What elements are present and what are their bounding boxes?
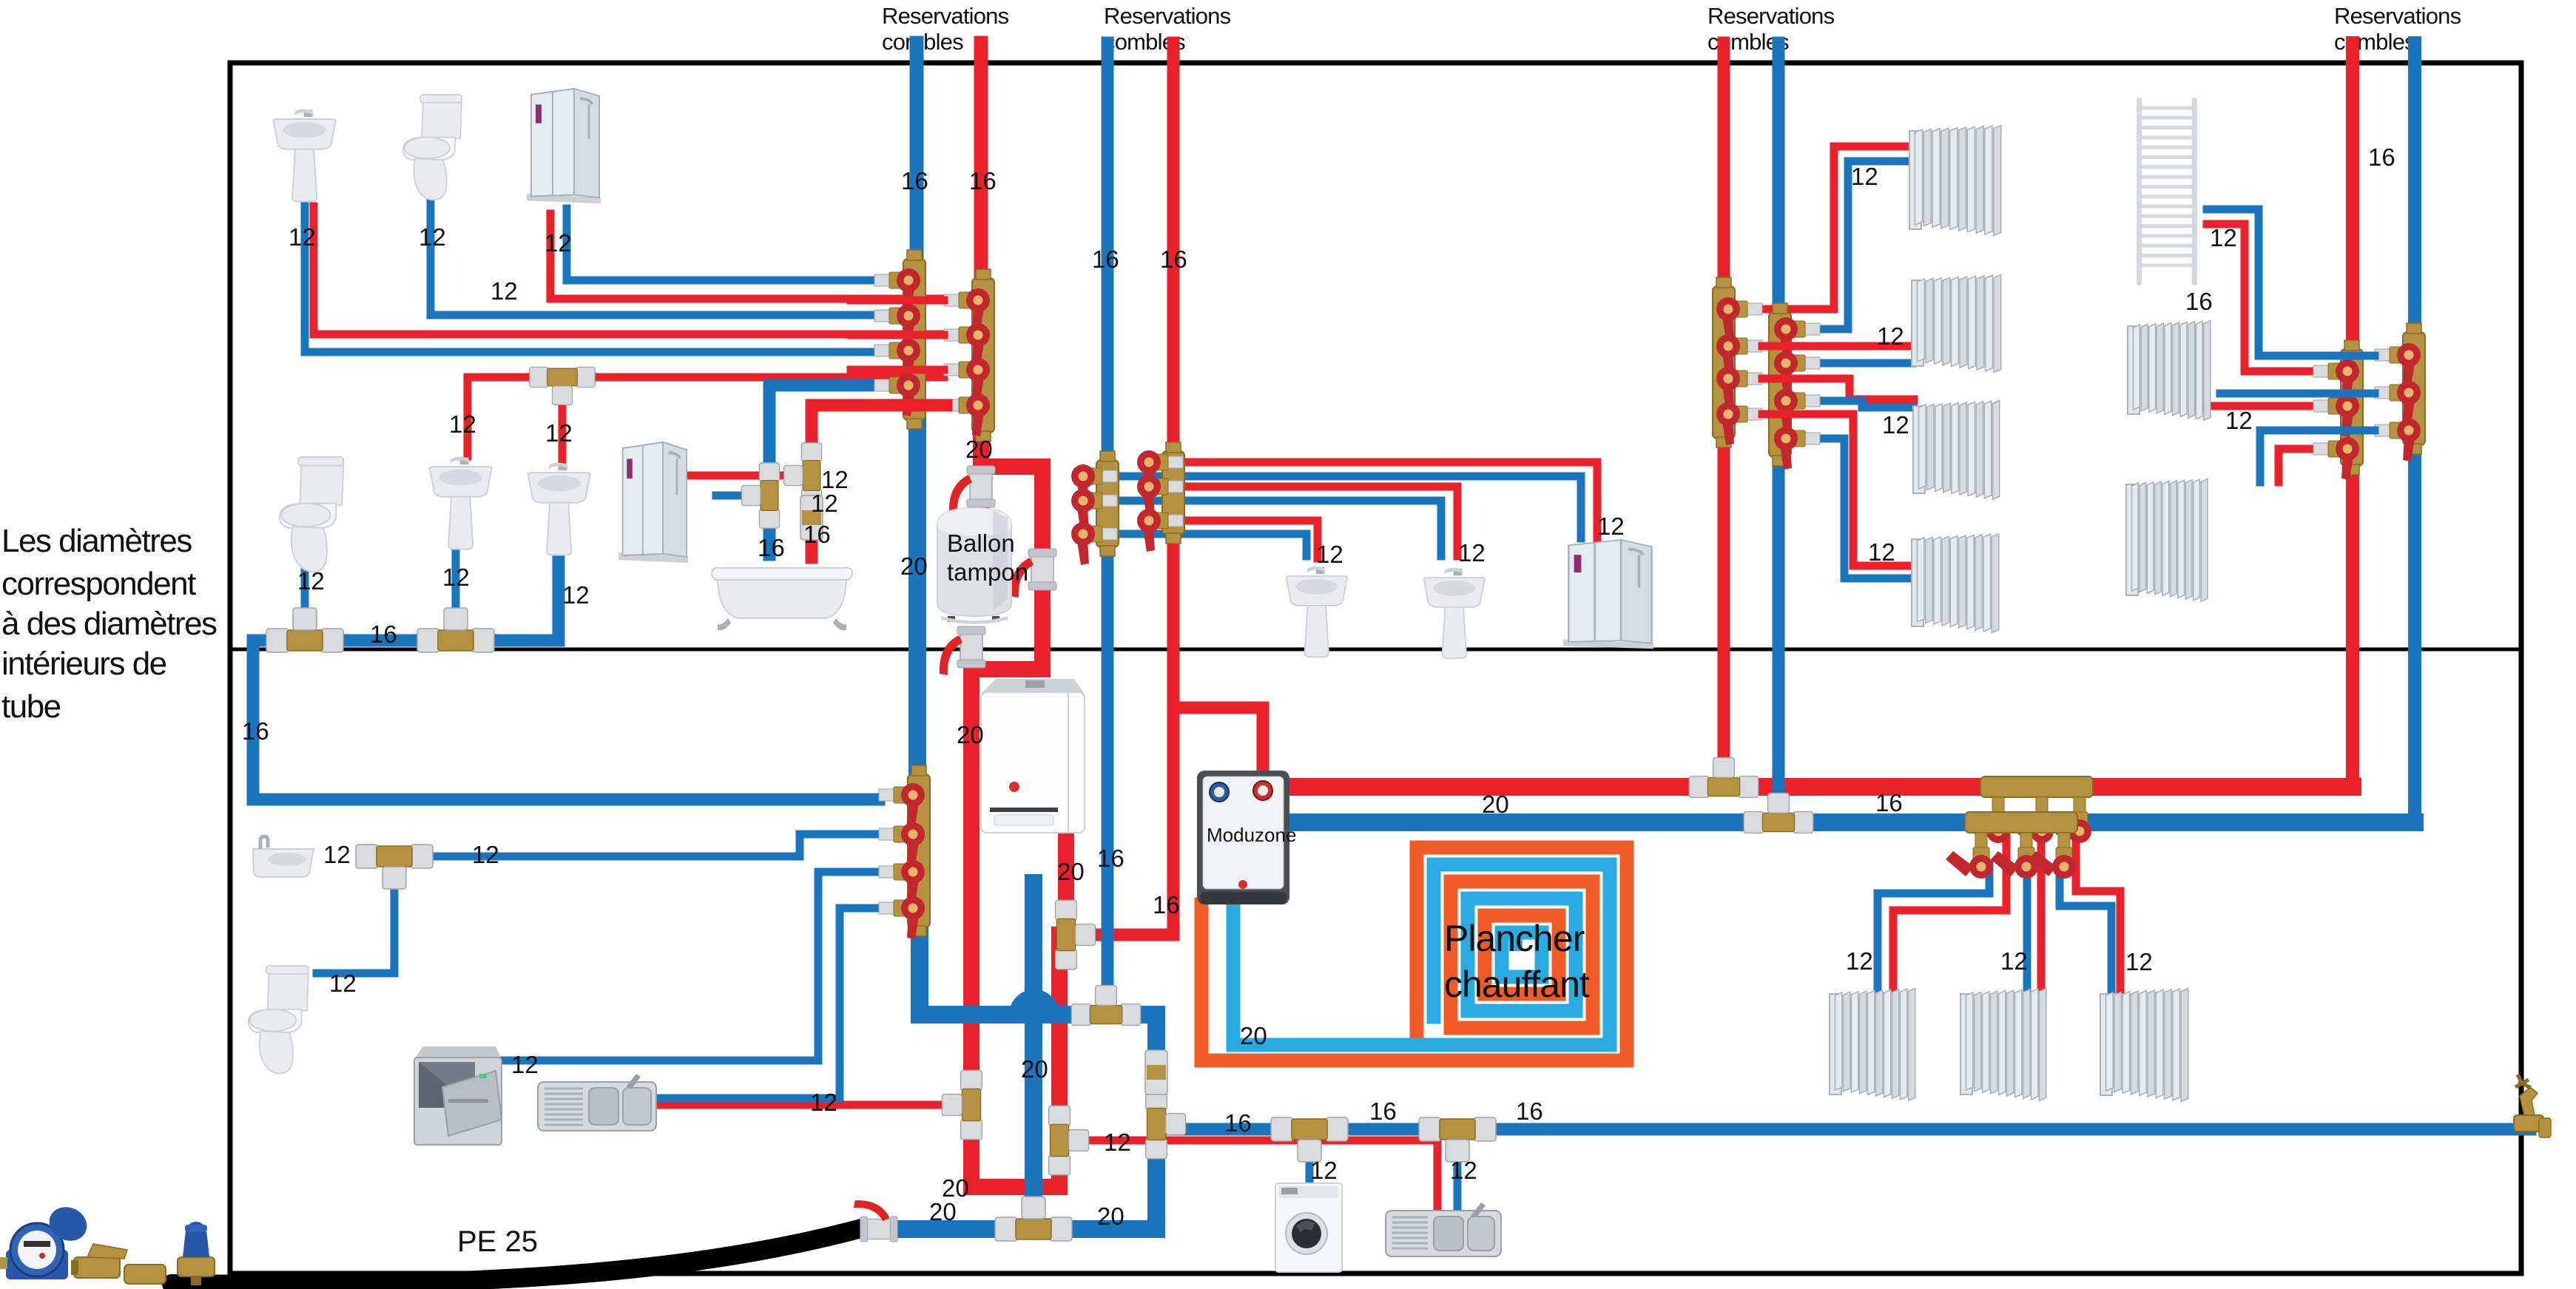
wire cold 12 to radiator R1 <box>1820 161 1910 329</box>
check valve <box>124 1265 166 1284</box>
coupler bathtub hot <box>800 495 823 540</box>
svg-text:12: 12 <box>289 223 316 251</box>
wire hot branch to sink 4 <box>559 377 567 464</box>
heating flow manifold right <box>2313 340 2363 480</box>
svg-text:12: 12 <box>1450 1157 1477 1184</box>
wire hot manifold down to ballon tampon <box>973 429 989 510</box>
svg-text:16: 16 <box>370 620 397 648</box>
svg-text:12: 12 <box>2225 407 2253 434</box>
wire cold 12 WC branch <box>317 865 394 973</box>
cold water manifold ground floor <box>879 765 930 939</box>
bathtub <box>712 568 852 631</box>
svg-text:16: 16 <box>803 521 831 548</box>
PE 25 supply pipe <box>172 1228 864 1285</box>
radiator R2 <box>1912 275 2001 373</box>
wire hot 16 to Moduzone <box>1173 708 1263 775</box>
wire cold 12 to towel radiator <box>2207 209 2375 356</box>
ground heating flow manifold <box>1963 777 2093 843</box>
svg-text:16: 16 <box>1369 1097 1397 1125</box>
svg-text:Moduzone: Moduzone <box>1207 824 1296 846</box>
svg-text:20: 20 <box>900 552 928 580</box>
wire cold riser 3 (Reservations combles) to ground floor <box>1773 43 1785 822</box>
label Reservations combles 1 <box>882 3 1009 55</box>
main stop valve <box>71 1244 127 1278</box>
wire cold 16 to bathroom 2 <box>769 385 877 555</box>
ball valve ballon top <box>949 466 995 515</box>
svg-text:Reservations: Reservations <box>1707 3 1835 29</box>
svg-text:chauffant: chauffant <box>1444 964 1590 1005</box>
wire cold 12 to sink 5 <box>1117 534 1306 556</box>
toilet 1 <box>403 95 462 200</box>
wire cold 12 to radiator B <box>2260 430 2375 482</box>
wire hot to shower 1 <box>550 214 944 299</box>
wire hot 12 to radiator R2 <box>1762 342 1912 351</box>
water meter <box>0 1201 92 1279</box>
radiator A <box>2128 321 2211 421</box>
wire hot 20 boiler drop <box>1058 833 1074 923</box>
wire cold 12 to ground radiator 2 <box>2023 868 2032 989</box>
washing machine <box>1275 1183 1342 1272</box>
radiator B <box>2126 479 2208 602</box>
wire cold 20 main riser to ground manifold <box>908 423 926 774</box>
wire cold rows over right flow manifold <box>2323 356 2375 430</box>
wire hot 12 to shower 3 <box>1183 462 1597 538</box>
towel radiator <box>2137 98 2197 285</box>
tee fitting shower 2 cold <box>742 463 780 528</box>
svg-text:12: 12 <box>1851 163 1878 190</box>
wire hot riser 1 (Reservations combles) to upstairs hot manifold <box>974 43 988 278</box>
svg-text:12: 12 <box>490 277 518 305</box>
svg-text:12: 12 <box>297 567 325 595</box>
svg-text:16: 16 <box>1092 246 1119 273</box>
wire hot 12 to radiator R1 <box>1762 146 1910 309</box>
wire hot riser 2 (Reservations combles) <box>1167 43 1180 935</box>
svg-text:12: 12 <box>419 223 446 251</box>
tee fitting shower 2 hot <box>784 443 822 508</box>
wire hot 12 to radiator R3 <box>1762 379 1914 399</box>
svg-text:12: 12 <box>545 419 573 447</box>
wire cold 12 to sink 6 <box>1117 501 1441 556</box>
wire hot riser 4 (Reservations combles) <box>2346 43 2359 787</box>
svg-text:tube: tube <box>1 689 61 725</box>
tee fitting cold riser split <box>1071 985 1141 1025</box>
ball valve floor crossing <box>940 626 985 675</box>
svg-text:12: 12 <box>1877 322 1904 350</box>
cold mini manifold mid bathroom <box>1071 451 1119 565</box>
wire cold to toilet 1 <box>431 195 877 315</box>
tee fitting small sink <box>356 845 433 889</box>
coupler union cold drop <box>1145 1050 1167 1095</box>
svg-text:12: 12 <box>2210 224 2237 251</box>
svg-text:12: 12 <box>442 564 470 591</box>
wire cold 12 to small sink and WC <box>364 834 879 856</box>
svg-text:12: 12 <box>1316 541 1343 568</box>
wire cold 20 bottom main run <box>895 1220 1156 1238</box>
wire cold 12 to radiator R4 <box>1820 439 1912 578</box>
tee fitting sink 4 hot <box>530 367 595 405</box>
svg-text:16: 16 <box>2368 143 2395 171</box>
toilet 2 <box>280 457 343 572</box>
wire hot 12 to sink 5 <box>1183 521 1318 558</box>
tee fitting kitchen hot <box>942 1070 982 1140</box>
wire cold 12 to shower 3 <box>1117 476 1581 538</box>
wire cold riser 2 (Reservations combles) to ground tee <box>1102 43 1114 1015</box>
svg-text:12: 12 <box>1597 512 1625 540</box>
plancher chauffant floor heating loop <box>1201 848 1627 1060</box>
svg-text:20: 20 <box>929 1198 957 1225</box>
svg-text:12: 12 <box>562 581 590 609</box>
svg-text:12: 12 <box>1104 1129 1131 1156</box>
boiler Saunier Duval <box>981 679 1085 833</box>
wire cold 12 to radiator R2 <box>1820 359 1912 368</box>
svg-text:20: 20 <box>957 721 984 748</box>
ground radiator 2 <box>1960 989 2046 1101</box>
tee fitting toilet 2 <box>266 608 343 652</box>
svg-text:12: 12 <box>449 410 476 438</box>
shower 3 <box>1563 540 1653 649</box>
kitchen sink <box>538 1074 656 1131</box>
wire cold 12 sink 3 drop <box>452 551 460 625</box>
wire cold 16 ground long run to manifold <box>253 794 879 806</box>
svg-text:16: 16 <box>1516 1097 1543 1125</box>
svg-text:16: 16 <box>1160 246 1187 273</box>
label Reservations combles 3 <box>1707 3 1835 55</box>
pipe size labels <box>242 143 2395 1230</box>
svg-text:20: 20 <box>965 436 993 463</box>
toilet B <box>249 966 308 1073</box>
wire cold 20 Moduzone to radiator manifold <box>1289 813 2415 831</box>
tee fitting cold 16 branch <box>1146 1089 1186 1159</box>
svg-text:Reservations: Reservations <box>2334 3 2461 29</box>
wire hot 20 Moduzone to radiator manifold <box>1289 778 2353 796</box>
svg-text:Ballon: Ballon <box>947 530 1015 557</box>
svg-text:16: 16 <box>2185 288 2213 315</box>
svg-text:à des diamètres: à des diamètres <box>1 606 217 642</box>
small hand basin <box>253 836 314 877</box>
heating flow manifold first floor <box>1713 277 1762 447</box>
floor divider line <box>232 648 2519 652</box>
radiator R4 <box>1912 534 1999 633</box>
svg-text:12: 12 <box>2125 948 2153 975</box>
wire cold 20 tee to down elbow <box>1113 1015 1156 1229</box>
wire cold 20 boiler feed riser <box>1025 883 1042 1229</box>
sink 5 <box>1286 566 1347 657</box>
Moduzone distribution unit <box>1197 771 1296 904</box>
wire hot 20 manifold to ballon valve <box>971 467 1059 1187</box>
svg-text:16: 16 <box>758 534 785 561</box>
wire hot 12 to ground radiator 2 <box>2037 836 2046 989</box>
tee fitting boiler hot <box>1056 900 1096 970</box>
svg-text:correspondent: correspondent <box>1 566 196 602</box>
wire hot 12 to ground radiator 1 <box>1893 836 2006 989</box>
wire cold 20 bridge over boiler riser <box>1018 998 1051 1015</box>
wire hot 12 to shower 2 <box>688 472 800 480</box>
caption text <box>1 523 217 725</box>
svg-text:16: 16 <box>969 167 997 194</box>
svg-text:12: 12 <box>2000 947 2028 975</box>
wire hot 12 to radiator R4 <box>1762 414 1912 566</box>
wire cold 16 bathroom 2 floor run <box>253 551 559 799</box>
svg-text:12: 12 <box>1868 538 1895 566</box>
shower 2 <box>618 442 688 563</box>
svg-text:PE 25: PE 25 <box>457 1225 538 1258</box>
label Reservations combles 4 <box>2334 3 2461 55</box>
svg-text:20: 20 <box>1240 1022 1267 1049</box>
svg-text:12: 12 <box>329 970 357 997</box>
wire hot 12 to ground radiator 3 <box>2076 836 2120 989</box>
heating return manifold first floor <box>1769 303 1820 470</box>
svg-text:12: 12 <box>1458 539 1486 566</box>
wire cold to sink 1 <box>305 203 877 352</box>
svg-text:12: 12 <box>1882 411 1909 439</box>
wire cold riser 4 (Reservations combles) <box>2408 43 2421 822</box>
wire cold 12 to ground radiator 1 <box>1878 864 1989 989</box>
svg-text:tampon: tampon <box>947 558 1028 586</box>
svg-text:16: 16 <box>1224 1109 1252 1137</box>
hot mini manifold mid bathroom <box>1137 442 1184 552</box>
svg-text:12: 12 <box>544 229 572 257</box>
outside tap <box>2514 1075 2551 1137</box>
tee fitting kitchen sink 2 <box>1419 1117 1496 1162</box>
svg-text:12: 12 <box>811 490 838 517</box>
wire hot to sink 1 <box>314 206 944 334</box>
svg-text:20: 20 <box>1097 1202 1125 1230</box>
wire cold 12 to kitchen sink <box>659 908 879 1098</box>
kitchen sink 2 <box>1386 1202 1501 1256</box>
svg-text:16: 16 <box>1097 845 1125 872</box>
wire cold 12 toilet 2 drop <box>301 566 309 625</box>
sink 3 <box>429 456 491 549</box>
wire cold 16 bottom long run to outside tap <box>1167 1123 2530 1136</box>
ball valve ballon right <box>1011 549 1056 598</box>
ball valve PE main <box>854 1200 897 1242</box>
wire cold 12 to ground radiator 3 <box>2060 864 2111 989</box>
cold water manifold upstairs <box>874 250 925 429</box>
wire cold 20 bridge to tee <box>1051 1006 1113 1024</box>
wire cold 20 ground manifold feed <box>920 926 1018 1015</box>
tee fitting sink2 hot <box>1049 1106 1089 1175</box>
tee fitting bottom main <box>995 1197 1072 1241</box>
sink 6 <box>1423 568 1485 659</box>
wire heating rows over return manifold <box>1762 329 1820 414</box>
tee fitting sink 3 <box>417 608 494 652</box>
wire hot 12 to kitchen sink <box>656 1101 962 1109</box>
svg-text:Reservations: Reservations <box>1104 3 1231 29</box>
svg-text:16: 16 <box>1153 891 1180 918</box>
wire hot rows over cold manifold <box>851 300 946 405</box>
wire hot 12 to kitchen sink 2 <box>1074 1140 1437 1211</box>
wire hot to sinks 3-4 <box>468 377 944 456</box>
svg-text:Les diamètres: Les diamètres <box>1 523 192 559</box>
label PE 25 <box>457 1225 538 1258</box>
dishwasher <box>414 1046 502 1145</box>
svg-text:16: 16 <box>901 167 928 194</box>
wire hot 12 to radiator B <box>2279 449 2313 482</box>
pressure reducer <box>178 1222 215 1285</box>
ground radiator 3 <box>2100 989 2188 1102</box>
wire cold to shower 1 <box>567 209 877 280</box>
radiator R1 <box>1909 126 2001 236</box>
ground heating return manifold <box>1946 812 2077 879</box>
wire hot 12 to towel radiator <box>2207 224 2313 371</box>
wire cold 12 to dishwasher <box>500 872 879 1060</box>
wire hot 12 to radiator A <box>2198 402 2311 410</box>
svg-text:20: 20 <box>1482 791 1509 818</box>
wire hot 12 to sink 6 <box>1183 487 1457 556</box>
svg-text:Reservations: Reservations <box>882 3 1009 29</box>
svg-text:12: 12 <box>472 841 499 868</box>
wire hot riser 3 (Reservations combles) to ground floor <box>1718 43 1730 787</box>
sink 1 <box>273 109 335 201</box>
tee fitting washing machine <box>1271 1117 1348 1162</box>
svg-text:20: 20 <box>1021 1055 1048 1083</box>
hot water manifold upstairs <box>944 269 994 441</box>
wire cold 12 kitchen sink 2 drop <box>1454 1135 1462 1211</box>
svg-text:12: 12 <box>1846 947 1873 975</box>
svg-text:16: 16 <box>1875 789 1903 816</box>
svg-text:12: 12 <box>810 1089 837 1116</box>
sink 4 <box>527 462 590 555</box>
wire cold 12 to shower 2 <box>716 492 758 500</box>
shower 1 <box>527 89 601 203</box>
tee fitting heating riser 3 hot <box>1689 757 1759 797</box>
wire hot 16 boiler tee to riser <box>1076 929 1173 941</box>
label Reservations combles 2 <box>1104 3 1231 55</box>
heating return manifold right <box>2375 323 2425 461</box>
wire cold 12 to radiator R3 <box>1820 401 1914 407</box>
svg-text:12: 12 <box>323 841 351 868</box>
wire hot 16 to bathroom 2 <box>812 405 946 558</box>
wire cold riser 1 (Reservations combles) to upstairs cold manifold <box>910 43 924 259</box>
svg-text:20: 20 <box>1057 858 1085 885</box>
svg-text:12: 12 <box>511 1051 539 1078</box>
tee fitting heating riser 3 cold <box>1744 793 1813 833</box>
ground radiator 1 <box>1830 989 1915 1101</box>
label Plancher chauffant <box>1444 918 1590 1005</box>
wire cold 12 washing machine drop <box>1306 1135 1314 1182</box>
svg-text:Plancher: Plancher <box>1444 918 1585 959</box>
svg-text:12: 12 <box>1310 1157 1338 1184</box>
svg-text:intérieurs de: intérieurs de <box>1 646 166 682</box>
svg-text:16: 16 <box>242 717 269 745</box>
ballon tampon buffer tank <box>937 508 1028 624</box>
wire cold 12 to radiator A <box>2220 390 2375 398</box>
radiator R3 <box>1913 401 2000 500</box>
